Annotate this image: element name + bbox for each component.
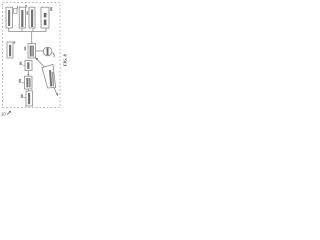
circle H (pump/fan symbol with bar): [43, 47, 52, 56]
numeral label left of G: [24, 47, 26, 51]
box F: [7, 42, 13, 58]
FIG. 8 label (rotated) right of border: [62, 53, 67, 66]
box C: [19, 7, 25, 28]
label 10 with arrow at bottom left: [1, 111, 11, 117]
numeral label right of box E top: [50, 7, 52, 11]
dashed enclosure border (system boundary, node 10): [3, 3, 61, 108]
numeral label left of J: [20, 62, 25, 66]
box B (small block right of A): [14, 6, 19, 13]
numeral label between C and D: [27, 11, 29, 15]
numeral tick at F top right: [14, 41, 16, 44]
numeral label near C top: [25, 5, 27, 8]
svg-text:10: 10: [1, 112, 6, 117]
box K: [25, 76, 32, 89]
box A (tall block, vertical text): [6, 7, 13, 28]
box L: [26, 91, 33, 106]
wire: tail from funnel bottom with arrowhead: [54, 88, 58, 96]
wire: bus from box A bottom across to box E: [9, 28, 46, 44]
box J: [25, 61, 32, 71]
wire: K to L: [28, 89, 30, 91]
numeral leader right of circle: [53, 53, 54, 57]
box E (two text runs inside): [41, 7, 49, 28]
funnel / hopper (slanted trapezoid with vertical text): [42, 64, 56, 88]
svg-text:FIG. 8: FIG. 8: [62, 53, 67, 66]
box G: [28, 44, 36, 59]
wire: arrow from funnel up-left into box G corner: [35, 57, 46, 68]
wire: J to K with arrowhead: [27, 71, 29, 77]
wire: G to circle H: [36, 50, 44, 52]
numeral label left of L: [21, 94, 26, 98]
numeral label left of K: [19, 79, 24, 84]
box D: [29, 7, 35, 28]
